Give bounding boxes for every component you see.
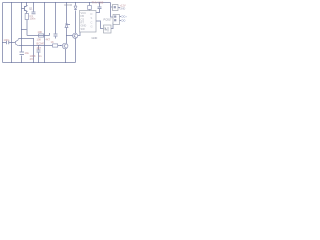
svg-text:C: C: [91, 20, 93, 24]
wire opto right to terminal: [111, 23, 113, 29]
svg-text:D: D: [91, 12, 93, 16]
terminal block J1: [113, 5, 119, 11]
wire vertical x21 lower: [21, 56, 23, 63]
wire vertical x99 top: [99, 3, 101, 7]
transistor circle Q4: [73, 33, 78, 38]
wire vertical x38 lower: [38, 46, 40, 50]
wire vertical x11: [11, 3, 13, 63]
wire left rail: [2, 3, 4, 63]
wire y35 hook up: [49, 33, 51, 36]
diode on x75 top: [74, 6, 77, 10]
capacitor C on x21 lower: [20, 52, 25, 55]
capacitor C on x99: [98, 7, 102, 9]
wire Q1 collector to resistor: [26, 12, 28, 14]
terminal block J2: [113, 15, 120, 25]
wire vertical x66 mid: [66, 28, 68, 44]
wire vertical x21 upper: [21, 3, 23, 52]
svg-text:Q1: Q1: [29, 6, 33, 10]
svg-text:PC817: PC817: [104, 18, 112, 22]
wire Q1 emitter drop: [26, 3, 28, 6]
wire y38 collector wire: [19, 38, 34, 40]
svg-text:4K7: 4K7: [46, 37, 51, 41]
op-amp IC U1 main controller box: [80, 11, 97, 33]
wire circle2 collector stub right: [78, 32, 81, 36]
wire y42 input left: [3, 42, 7, 44]
U1 pin text right column: [91, 12, 93, 29]
resistor R series y35: [39, 34, 44, 37]
wire y42 cap to base: [9, 42, 15, 44]
wire circle2 to rail corner: [75, 39, 77, 63]
svg-text:100n: 100n: [30, 17, 36, 21]
svg-text:TNY 268: TNY 268: [92, 1, 104, 5]
U1 pin text left column: [81, 11, 87, 31]
wire right bus: [111, 3, 114, 18]
optocoupler internal led: [105, 27, 108, 32]
transistor Q2 mid-left: [15, 39, 19, 46]
svg-text:DC-: DC-: [122, 18, 127, 22]
wire x99 below cap: [96, 9, 100, 13]
wire vertical x38 to rail: [38, 53, 40, 63]
svg-text:10K: 10K: [38, 30, 43, 34]
optocoupler U2 box: [104, 25, 112, 33]
wire IC right stub to opto: [96, 21, 104, 29]
svg-text:47u: 47u: [30, 57, 35, 61]
resistor R below Q1: [25, 14, 28, 20]
wire bottom rail: [3, 62, 76, 64]
svg-text:1K: 1K: [51, 40, 54, 44]
wire y45 emitter wire: [19, 45, 53, 47]
capacitor C-in series y42: [7, 41, 9, 44]
capacitor C on x33 top: [32, 12, 36, 14]
label text red bottom cluster: [30, 54, 42, 61]
zener diode on x66: [65, 24, 68, 28]
wire terminal1 feed: [111, 6, 113, 8]
svg-text:4K7: 4K7: [37, 46, 42, 50]
transistor Q1 pnp top-left: [22, 6, 28, 12]
svg-text:SW: SW: [81, 27, 86, 31]
svg-text:BC547: BC547: [37, 42, 45, 46]
capacitor C on x38: [37, 50, 41, 52]
terminal J1 inner screw: [114, 6, 116, 8]
junction dots: [2, 2, 100, 63]
svg-text:10u: 10u: [25, 51, 30, 55]
resistor R series y45: [53, 44, 58, 47]
transistor circle Q3: [62, 43, 68, 49]
wire top rail: [3, 2, 111, 4]
wire vertical x33 lower: [33, 39, 35, 63]
wire resistor to node y29: [26, 20, 28, 36]
wire vertical x75 upper: [75, 3, 77, 6]
wire vertical x89 snubber: [89, 3, 91, 6]
wire vertical x33 top with cap lead: [33, 3, 35, 12]
wire x75 diode to circle2: [75, 11, 77, 34]
svg-text:S: S: [91, 16, 93, 20]
svg-text:100n: 100n: [4, 38, 10, 42]
wire zener stub: [67, 24, 71, 26]
label text red cluster top right: [92, 1, 104, 5]
wire y45 to circle1: [58, 45, 63, 47]
wire vertical x55: [55, 3, 57, 34]
svg-text:GND: GND: [120, 6, 126, 10]
wire vertical x66 upper: [66, 3, 68, 24]
wire x55 cap stub: [55, 37, 57, 39]
svg-text:D2 FR: D2 FR: [65, 3, 73, 7]
snubber box on x89: [88, 6, 92, 10]
label text red right of loop: [37, 38, 45, 51]
svg-text:G: G: [91, 25, 93, 29]
wire y35 branch to circle2: [67, 35, 73, 37]
svg-text:GND: GND: [92, 36, 98, 40]
wire y29 branch: [22, 29, 28, 31]
wire circle1 emitter to rail: [65, 49, 67, 63]
svg-text:10K: 10K: [37, 38, 42, 42]
capacitor C on x55: [54, 34, 58, 36]
svg-text:DC+: DC+: [122, 14, 128, 18]
wire y35 left segment: [27, 35, 50, 37]
terminal J2 inner screws: [114, 16, 116, 18]
wire vertical x44: [44, 3, 46, 63]
